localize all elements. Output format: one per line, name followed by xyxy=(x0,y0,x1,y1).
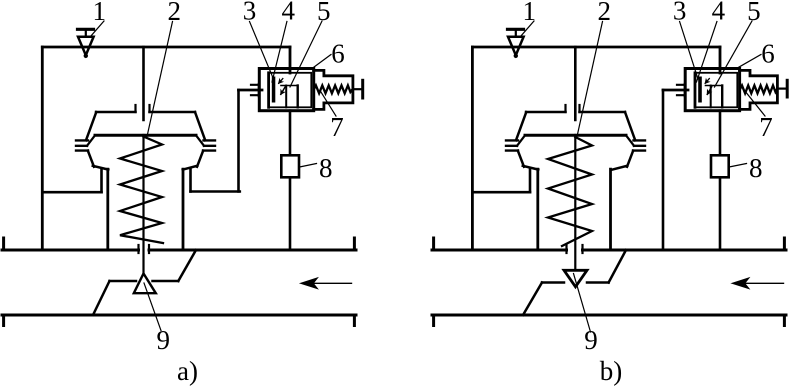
vent 1: funnel V xyxy=(78,37,94,55)
diaphragm plate xyxy=(525,134,626,137)
svg-text:2: 2 xyxy=(168,0,182,26)
diaphragm flange bars right xyxy=(633,140,645,150)
left connection line xyxy=(41,47,44,250)
flow direction arrow head xyxy=(732,278,749,289)
pilot valve body xyxy=(259,69,313,111)
spool top line xyxy=(281,85,298,87)
stem gland tick right xyxy=(148,245,150,253)
stem gland tick left xyxy=(137,245,139,253)
leader 9 xyxy=(144,283,161,331)
plug 9 (triangle, apex down) xyxy=(564,270,587,287)
vent 1: apex dot xyxy=(84,54,88,58)
pipe bottom wall left end tick xyxy=(432,315,435,326)
setting spring 7 xyxy=(314,85,353,93)
pipe top wall (right segment) xyxy=(583,249,787,252)
vent 1: top bar xyxy=(508,28,524,31)
lower body wall left xyxy=(536,169,539,250)
leader 3 xyxy=(680,22,698,80)
lower body wall left xyxy=(106,169,109,250)
hat slant right xyxy=(625,112,635,140)
branch wire to actuator lower chamber (left) xyxy=(42,191,101,194)
leader 8 xyxy=(300,164,317,168)
pipe bottom wall right end tick xyxy=(783,315,786,326)
leader 6 xyxy=(737,55,762,69)
svg-text:1: 1 xyxy=(523,0,537,26)
wire from pilot nozzle to actuator (vertical) xyxy=(237,90,240,192)
spool left edge xyxy=(285,86,287,108)
leader 7 xyxy=(745,91,766,117)
valve stem xyxy=(142,135,144,274)
lower body steep slant right xyxy=(197,151,203,167)
lower body gentle slant right xyxy=(612,166,627,170)
svg-text:5: 5 xyxy=(317,0,331,26)
spring 2 xyxy=(548,137,592,246)
valve seat left diagonal xyxy=(93,281,110,315)
stem gland tick right xyxy=(581,245,583,253)
leader 3 xyxy=(250,22,274,80)
leader 2 xyxy=(147,22,173,137)
svg-text:6: 6 xyxy=(761,39,775,69)
spring housing 6 xyxy=(314,70,353,109)
pipe top wall left end tick xyxy=(2,238,5,250)
wire from pilot nozzle to actuator (horizontal) xyxy=(191,190,240,193)
lower body wall right xyxy=(182,169,185,250)
leader 5 xyxy=(290,21,322,87)
vent 1: apex dot xyxy=(514,54,518,58)
pipe top wall (right segment) xyxy=(149,249,356,252)
svg-text:5: 5 xyxy=(747,0,761,26)
vent 1: stem xyxy=(515,29,517,37)
pipe top wall right end tick xyxy=(783,238,786,250)
flow direction arrow shaft xyxy=(737,282,784,284)
diaphragm flange bars left xyxy=(76,140,88,150)
svg-text:a): a) xyxy=(177,356,198,386)
svg-text:9: 9 xyxy=(157,325,171,355)
valve seat left diagonal xyxy=(523,283,542,316)
pipe top wall (left segment) xyxy=(432,249,567,252)
nozzle wire tip xyxy=(239,89,263,92)
lower body gentle slant left xyxy=(93,166,109,170)
svg-text:4: 4 xyxy=(712,0,726,26)
left connection line xyxy=(471,47,474,250)
leader 4 xyxy=(272,22,287,83)
restrictor 8 (square) xyxy=(711,155,729,177)
pipe top wall (left segment) xyxy=(2,249,139,252)
nozzle wire tip xyxy=(663,89,688,92)
svg-text:9: 9 xyxy=(584,325,598,355)
leader 2 xyxy=(577,22,603,137)
svg-text:8: 8 xyxy=(319,153,333,183)
leader 6 xyxy=(312,55,331,69)
spring 2 xyxy=(120,137,163,244)
lower body steep slant left xyxy=(88,151,94,167)
setting spring 7 xyxy=(740,85,777,93)
leader 1 xyxy=(521,21,535,37)
top connection line xyxy=(42,46,290,49)
svg-text:4: 4 xyxy=(282,0,296,26)
pilot output line down xyxy=(289,111,292,250)
pipe bottom wall left end tick xyxy=(2,315,5,326)
lower body wall right xyxy=(609,169,612,250)
diaphragm flange bars right xyxy=(203,140,215,150)
flow direction arrow shaft xyxy=(305,282,352,284)
svg-text:8: 8 xyxy=(749,153,763,183)
pilot valve body xyxy=(685,69,739,111)
diaphragm plate xyxy=(95,134,196,137)
lower body gentle slant right xyxy=(183,166,198,170)
flow direction arrow head xyxy=(301,278,318,289)
supply drop to pilot valve xyxy=(719,47,722,73)
vent 1: top bar xyxy=(78,28,94,31)
spring housing 6 xyxy=(740,70,778,109)
svg-text:7: 7 xyxy=(330,112,344,142)
internal flow arrow lower xyxy=(707,87,711,95)
adjusting screw T-handle xyxy=(786,80,789,97)
vent 1: stem xyxy=(85,29,87,37)
wire from pilot nozzle down to pipe xyxy=(662,90,665,250)
actuator right port stub xyxy=(189,169,192,192)
actuator hat top left segment xyxy=(526,111,566,114)
flapper plate 3 xyxy=(698,77,702,103)
hat slant left xyxy=(516,112,526,140)
vent 1: funnel V xyxy=(508,37,524,55)
pipe bottom wall xyxy=(2,314,356,317)
lower body gentle slant left xyxy=(523,166,539,170)
membrane slant right xyxy=(626,135,634,146)
valve seat right diagonal xyxy=(609,250,626,283)
internal flow arrow upper xyxy=(705,79,709,84)
svg-text:b): b) xyxy=(600,356,623,386)
hat slant right xyxy=(195,112,205,140)
valve stem xyxy=(574,135,576,270)
internal flow arrow lower xyxy=(281,87,285,95)
hat gap tick right xyxy=(148,105,150,112)
inner chamber left wall xyxy=(694,73,697,108)
hat gap tick left xyxy=(564,105,566,112)
pipe top wall left end tick xyxy=(432,238,435,250)
leader 4 xyxy=(697,22,717,83)
inner chamber left wall xyxy=(267,73,270,108)
stem gland tick left xyxy=(565,245,567,253)
spool right edge xyxy=(721,86,723,108)
internal flow arrow upper xyxy=(279,79,283,84)
adjusting screw shaft xyxy=(777,87,785,89)
actuator hat top right segment xyxy=(580,111,626,114)
diaphragm flange bars left xyxy=(506,140,518,150)
top connection line xyxy=(472,46,720,49)
supply drop to pilot valve xyxy=(289,47,292,73)
membrane slant left xyxy=(87,135,95,146)
leader 7 xyxy=(320,91,336,117)
plug 9 (triangle, apex up) xyxy=(134,274,156,294)
actuator hat top right segment xyxy=(150,111,196,114)
svg-text:6: 6 xyxy=(331,39,345,69)
hat gap tick left xyxy=(134,105,136,112)
actuator hat top left segment xyxy=(96,111,136,114)
nozzle bracket top xyxy=(251,84,259,96)
svg-text:1: 1 xyxy=(93,0,107,26)
svg-text:7: 7 xyxy=(759,112,773,142)
leader 5 xyxy=(715,21,753,87)
valve seat right lip xyxy=(587,281,609,284)
leader 9 xyxy=(574,274,591,333)
spool left edge xyxy=(710,86,712,108)
lower body steep slant right xyxy=(627,151,633,167)
restrictor 8 (square) xyxy=(281,155,299,177)
actuator left port stub xyxy=(529,169,532,193)
membrane slant left xyxy=(517,135,525,146)
lower body steep slant left xyxy=(518,151,524,167)
valve seat left lip xyxy=(110,280,137,283)
pipe bottom wall xyxy=(432,314,786,317)
flapper plate 3 xyxy=(272,77,276,103)
spool right edge xyxy=(297,86,299,108)
leader 1 xyxy=(91,21,105,37)
pilot output line down xyxy=(719,111,722,250)
membrane slant right xyxy=(196,135,204,146)
pilot valve inner chamber xyxy=(269,73,312,108)
nozzle bracket xyxy=(677,84,685,96)
pipe top wall right end tick xyxy=(353,238,356,250)
adjusting screw T-handle xyxy=(361,80,364,98)
valve seat right lip xyxy=(153,280,179,283)
svg-text:2: 2 xyxy=(598,0,612,26)
pipe bottom wall right end tick xyxy=(353,315,356,326)
adjusting screw shaft xyxy=(353,88,361,90)
branch wire to actuator lower chamber (left) xyxy=(472,191,530,194)
valve seat left lip xyxy=(542,281,564,284)
spool top line xyxy=(706,85,723,87)
hat gap tick right xyxy=(578,105,580,112)
actuator top pipe xyxy=(142,47,145,120)
actuator left port stub xyxy=(100,169,103,193)
actuator top pipe xyxy=(574,47,577,120)
pilot valve inner chamber xyxy=(695,73,738,108)
valve seat right diagonal xyxy=(178,250,196,281)
hat slant left xyxy=(86,112,96,140)
leader 8 xyxy=(729,164,747,168)
